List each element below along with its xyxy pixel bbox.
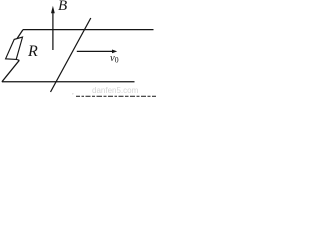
arrow v0 shaft xyxy=(77,50,113,52)
resistor R xyxy=(6,37,23,59)
wire left connector top xyxy=(17,30,23,39)
wire left connector bottom xyxy=(2,60,19,82)
arrowhead B xyxy=(51,6,55,14)
wire top rail xyxy=(23,29,154,31)
label B xyxy=(58,0,67,14)
label v0 xyxy=(109,53,118,65)
rod conductor xyxy=(51,18,91,92)
watermark bottom cut text xyxy=(76,96,156,97)
label R xyxy=(27,43,37,59)
wire bottom rail xyxy=(2,81,135,83)
arrow B shaft xyxy=(52,10,54,50)
watermark xyxy=(92,87,138,95)
arrowhead v0 xyxy=(112,50,117,54)
